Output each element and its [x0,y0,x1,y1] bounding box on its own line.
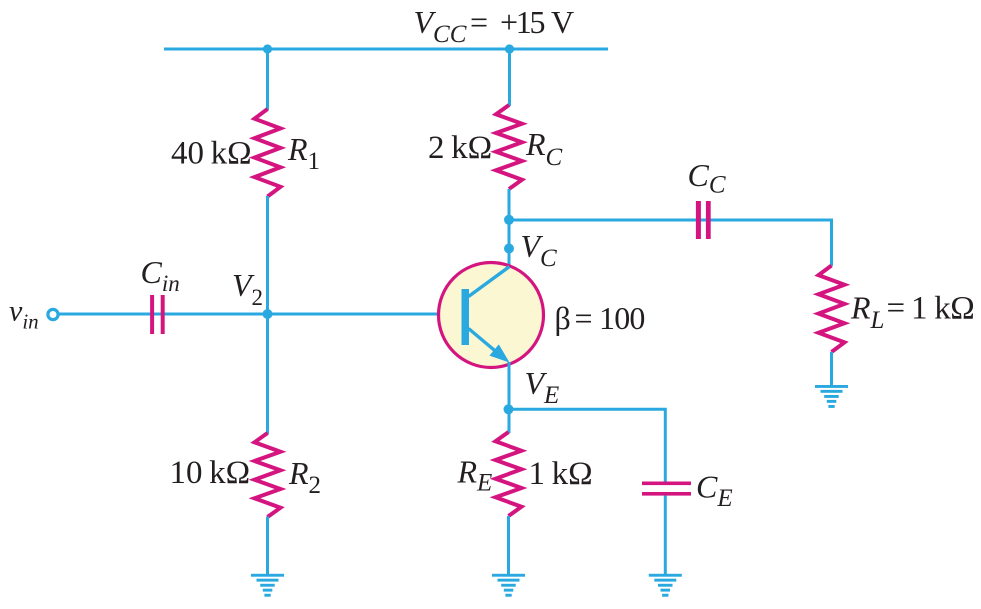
svg-text:RC: RC [525,126,563,171]
label R1 [287,131,320,175]
wire RE to ground [507,516,510,575]
ground (below CE) [649,574,682,597]
ground (below RL) [815,385,848,408]
svg-text:VC: VC [521,228,558,272]
ground (below RE) [492,574,525,597]
node V2 [263,309,273,319]
value label 40 kOhm [171,136,252,172]
svg-text:40 kΩ: 40 kΩ [171,136,252,172]
value label 2 kOhm [428,130,492,166]
wire corner down to RL [830,219,833,267]
wire collector junction to CC to RL corner [509,219,832,222]
label VE [525,365,560,409]
resistor RE [496,432,522,516]
label VCC = +15 V [414,4,575,48]
label RL = 1 kOhm [850,290,974,335]
svg-text:R2: R2 [288,455,321,499]
label R2 [288,455,321,499]
svg-text:10 kΩ: 10 kΩ [170,455,251,491]
wire RC to collector (through junction and VC) [508,189,511,267]
wire VCC rail to R1 [266,49,269,110]
label Cin [141,254,180,296]
label RC [525,126,563,171]
svg-text:VE: VE [525,365,560,409]
wire VCC rail to RC [508,49,511,106]
label beta = 100 [555,300,645,336]
svg-text:R1: R1 [287,131,320,175]
wire V2 to R2 [266,314,269,434]
svg-text:CE: CE [696,469,733,513]
svg-text:vin: vin [9,295,39,334]
node collector junction (to CC) [504,215,514,225]
wire RL to ground [830,352,833,386]
svg-text:Cin: Cin [141,254,180,296]
label V2 [232,267,263,310]
wire R2 to ground [266,517,269,576]
node junction R1/VCC [263,44,272,53]
resistor R2 [255,433,281,517]
wire base (V2 to transistor) [268,313,463,316]
svg-text:RE: RE [457,454,493,497]
resistor RL [819,266,845,353]
wire VE node to CE [509,409,666,484]
label RE [457,454,493,497]
resistor R1 [255,109,281,197]
svg-text:2 kΩ: 2 kΩ [428,130,492,166]
transistor Q1 (BJT, beta=100) [439,263,544,368]
capacitor Cin [150,295,165,334]
svg-text:RL=1kΩ: RL=1kΩ [850,290,974,335]
capacitor CC [696,201,711,239]
wire R1 to node V2 [266,196,269,314]
resistor RC [496,105,522,189]
capacitor CE [642,482,691,496]
node VC [504,244,514,254]
value label 10 kOhm [170,455,251,491]
node junction RC/VCC [505,44,514,53]
wire VCC top rail [164,48,608,51]
terminal vin (open circle) [48,309,58,319]
label CC [688,157,726,199]
label vin [9,295,39,334]
svg-text:β=100: β=100 [555,300,645,336]
value label 1 kOhm (RE) [529,456,593,492]
label CE [696,469,733,513]
wire CE to ground [664,496,667,576]
node VE [504,404,514,414]
label VC [521,228,558,272]
wire vin to Cin to V2 (passes under capacitor) [60,313,268,316]
svg-text:CC: CC [688,157,726,199]
wire emitter to VE node and RE [508,362,511,433]
svg-text:V2: V2 [232,267,263,310]
ground (below R2) [251,574,284,597]
svg-text:1 kΩ: 1 kΩ [529,456,593,492]
svg-text:VCC=+15V: VCC=+15V [414,4,575,48]
